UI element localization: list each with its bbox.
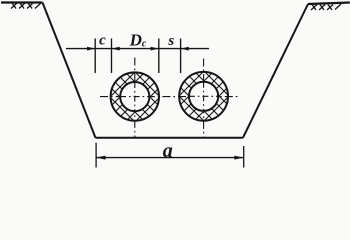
vertical centre line pipe 2: [203, 59, 205, 138]
extension tick at pipe left edge: [111, 39, 113, 74]
arrow s right: [181, 47, 189, 51]
svg-text:c: c: [99, 33, 106, 49]
a arrow left: [96, 156, 105, 160]
pipe 1 bore: [120, 82, 149, 111]
ground surface line left: [1, 1, 43, 3]
extension tick at second pipe left edge: [180, 39, 182, 74]
arrow Dc right / s left: [151, 47, 159, 51]
extension tick at pipe right edge: [158, 39, 160, 74]
arrow c left: [87, 47, 95, 51]
pipe 1 bore centre mark horizontal: [120, 96, 150, 98]
pipe 2 bore centre mark horizontal: [189, 95, 219, 97]
ground surface line right: [308, 3, 350, 5]
pipe 2 bore centre mark vertical: [203, 82, 205, 111]
trench right slope: [243, 4, 308, 138]
top dimension line: [66, 48, 209, 50]
extension tick at trench wall: [94, 39, 96, 74]
ground hatching right: [311, 4, 341, 10]
a dimension extension tick right: [243, 146, 245, 168]
trench left slope: [43, 3, 96, 138]
a arrow right: [234, 156, 243, 160]
pipe 2 wall hatching: [174, 41, 234, 151]
pipe 1 outer wall: [111, 72, 159, 120]
a dimension line: [96, 157, 244, 159]
pipe 2 outer wall: [179, 72, 228, 121]
ground hatching left: [11, 3, 41, 9]
svg-text:s: s: [167, 33, 174, 49]
horizontal centre line through pipes: [100, 96, 238, 98]
pipe 2 bore: [189, 82, 218, 111]
a dimension extension tick left: [95, 143, 97, 168]
pipe 1 wall hatching: [105, 42, 165, 152]
trench bottom: [96, 137, 244, 139]
pipe 1 bore centre mark vertical: [134, 82, 136, 111]
vertical centre line pipe 1: [134, 58, 136, 138]
arrow c right / Dc left: [112, 47, 120, 51]
svg-text:a: a: [163, 140, 173, 162]
